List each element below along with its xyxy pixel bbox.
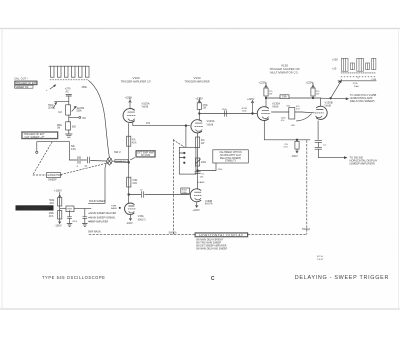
- svg-text:MULTIVIBRATOR CO.: MULTIVIBRATOR CO.: [270, 70, 299, 74]
- svg-text:LEVEL: LEVEL: [48, 108, 56, 110]
- svg-text:33pF: 33pF: [354, 86, 360, 88]
- svg-text:+100V: +100V: [54, 189, 62, 193]
- svg-text:100k: 100k: [282, 97, 288, 99]
- svg-text:SW 2: SW 2: [114, 150, 121, 154]
- svg-text:100k: 100k: [201, 162, 207, 164]
- svg-text:HORIZONTAL DISPLAY: HORIZONTAL DISPLAY: [199, 233, 244, 237]
- svg-text:CAL BREAK OPTION: CAL BREAK OPTION: [219, 151, 242, 154]
- svg-text:EXT. SWP. AMP: EXT. SWP. AMP: [137, 152, 154, 155]
- svg-text:C: C: [211, 276, 215, 282]
- svg-text:V130: V130: [281, 64, 288, 68]
- svg-text:+100V: +100V: [192, 209, 200, 212]
- svg-text:TRIGGER OF EXT: TRIGGER OF EXT: [16, 82, 38, 85]
- svg-text:50 V/CM: 50 V/CM: [141, 155, 150, 157]
- svg-text:R.T.H.: R.T.H.: [317, 256, 323, 258]
- svg-text:+225V: +225V: [125, 95, 133, 99]
- svg-text:270k: 270k: [203, 105, 209, 107]
- svg-text:+20: +20: [332, 68, 337, 71]
- svg-text:(DELAYING SWEEP): (DELAYING SWEEP): [350, 99, 375, 103]
- svg-text:CAT. SWEEP ⊣⊢: CAT. SWEEP ⊣⊢: [25, 135, 46, 139]
- svg-text:COUPLING: COUPLING: [116, 161, 127, 163]
- svg-text:500k: 500k: [49, 200, 55, 202]
- svg-text:+225V: +225V: [247, 98, 255, 101]
- svg-text:TYPE 545 OSCILLOSCOPE: TYPE 545 OSCILLOSCOPE: [42, 275, 105, 280]
- svg-text:TRIG: TRIG: [48, 105, 54, 107]
- svg-text:MAIN SWEEP DELAYED: MAIN SWEEP DELAYED: [90, 212, 116, 215]
- svg-text:SWEEP: SWEEP: [48, 179, 57, 182]
- svg-text:470k: 470k: [132, 180, 138, 182]
- svg-text:DELAYING SWEEP): DELAYING SWEEP): [220, 157, 241, 160]
- svg-text:41%: 41%: [132, 143, 137, 145]
- svg-text:41%: 41%: [283, 147, 287, 149]
- svg-text:SLOPE: SLOPE: [77, 108, 85, 110]
- svg-text:PRE: PRE: [57, 125, 62, 127]
- svg-text:+200: +200: [332, 58, 338, 61]
- svg-text:6AU7A: 6AU7A: [205, 203, 213, 206]
- svg-text:41%: 41%: [49, 216, 54, 218]
- svg-text:BULB SWEEP: BULB SWEEP: [89, 200, 106, 203]
- svg-text:½6U8: ½6U8: [142, 105, 149, 109]
- svg-text:(6AU7): (6AU7): [138, 218, 146, 221]
- svg-text:V133: V133: [193, 76, 200, 80]
- svg-text:(SCOPE WITH FLAT: (SCOPE WITH FLAT: [220, 154, 242, 157]
- svg-text:2-4-57: 2-4-57: [317, 259, 324, 261]
- svg-text:(SWEEP AMPLIFIER): (SWEEP AMPLIFIER): [350, 162, 375, 166]
- svg-text:AC: AC: [66, 90, 70, 93]
- svg-text:+225V: +225V: [306, 81, 314, 85]
- svg-text:41%: 41%: [49, 203, 54, 205]
- svg-text:SW TRIG MAIN SWEEP: SW TRIG MAIN SWEEP: [196, 242, 222, 245]
- svg-text:1500: 1500: [222, 109, 228, 111]
- svg-text:MAIN SWEEP NORMAL: MAIN SWEEP NORMAL: [90, 216, 116, 219]
- svg-text:+225V: +225V: [195, 96, 203, 100]
- svg-text:2.2M: 2.2M: [371, 79, 376, 81]
- svg-text:TRIGGERING MODE: TRIGGERING MODE: [22, 206, 47, 210]
- svg-text:V103: V103: [132, 76, 139, 80]
- svg-text:SWP AMPLIFIER: SWP AMPLIFIER: [90, 221, 108, 224]
- svg-text:CLAMP: CLAMP: [197, 181, 205, 184]
- svg-text:250k: 250k: [77, 111, 83, 113]
- svg-text:41%: 41%: [132, 183, 137, 185]
- svg-text:NO: NO: [82, 117, 86, 120]
- svg-text:SWEEP OF: SWEEP OF: [15, 86, 29, 89]
- svg-text:SW30A: SW30A: [169, 231, 178, 234]
- svg-text:CAL. OUT ~: CAL. OUT ~: [14, 77, 29, 81]
- svg-text:DELAYING - SWEEP TRIGGER: DELAYING - SWEEP TRIGGER: [295, 275, 389, 281]
- svg-text:250k: 250k: [49, 213, 55, 215]
- svg-text:-100V: -100V: [126, 222, 133, 225]
- svg-text:SW MAIN DELAY BRIGHT: SW MAIN DELAY BRIGHT: [196, 238, 224, 241]
- svg-text:SW30A: SW30A: [302, 228, 311, 231]
- svg-text:SW DET SWEEP AMPLIFIER: SW DET SWEEP AMPLIFIER: [196, 245, 227, 248]
- svg-text:-150V: -150V: [55, 223, 62, 227]
- svg-text:1M: 1M: [57, 128, 60, 130]
- svg-text:250k: 250k: [82, 86, 88, 89]
- svg-text:-150V: -150V: [291, 155, 298, 158]
- svg-text:+225V: +225V: [259, 81, 267, 85]
- svg-text:1M: 1M: [58, 112, 61, 114]
- svg-text:SWP MAGN: SWP MAGN: [88, 231, 101, 234]
- svg-text:STABILITY: STABILITY: [225, 160, 237, 163]
- svg-text:½6U8: ½6U8: [207, 122, 214, 126]
- svg-text:½6U8: ½6U8: [272, 104, 279, 108]
- svg-text:GATED TRIG: GATED TRIG: [48, 174, 63, 177]
- svg-text:TRIG: TRIG: [67, 209, 73, 211]
- svg-text:TRIGGER-AMPLIFIER C.F.: TRIGGER-AMPLIFIER C.F.: [121, 80, 152, 83]
- svg-text:TRIGGER AMPLIFIER: TRIGGER AMPLIFIER: [184, 80, 209, 83]
- svg-text:SW MAIN DELAYING SWEEP: SW MAIN DELAYING SWEEP: [196, 248, 228, 251]
- svg-text:BASE: BASE: [111, 207, 117, 210]
- svg-text:½6U8: ½6U8: [325, 104, 332, 108]
